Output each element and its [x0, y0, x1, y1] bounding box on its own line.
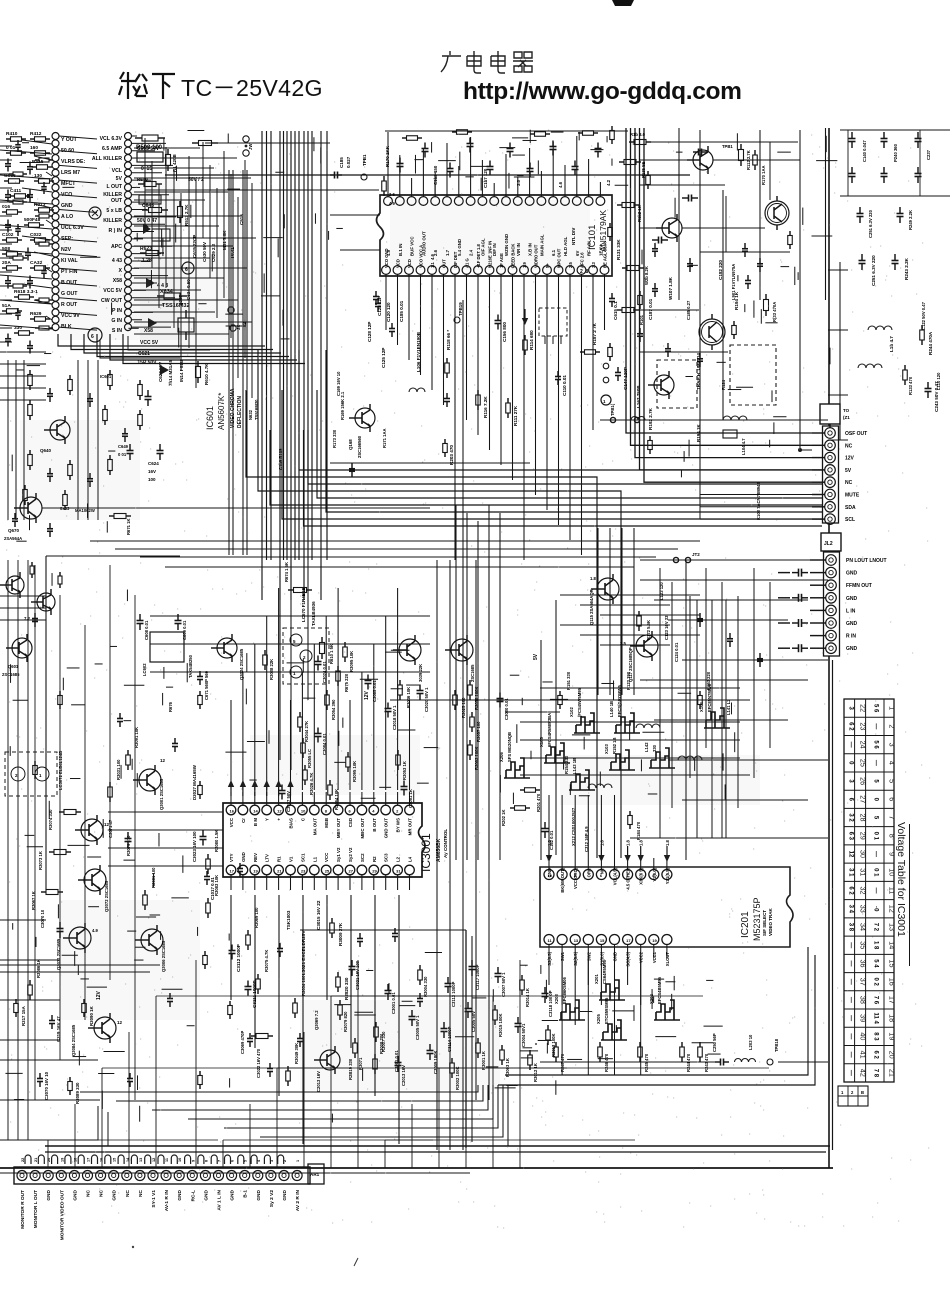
svg-text:L140 1B: L140 1B [609, 701, 614, 717]
svg-text:—: — [848, 1033, 854, 1039]
svg-text:C3021 16V 100: C3021 16V 100 [355, 960, 360, 990]
svg-text:19: 19 [253, 869, 258, 874]
svg-text:SCL: SCL [845, 517, 855, 523]
svg-text:P240 360: P240 360 [893, 143, 898, 162]
svg-text:B: B [861, 1090, 864, 1095]
svg-text:0 1: 0 1 [873, 832, 879, 841]
svg-text:R676: R676 [168, 701, 173, 712]
svg-text:X205: X205 [596, 1014, 601, 1024]
svg-text:C515: C515 [239, 214, 244, 225]
svg-text:MONITOR R OUT: MONITOR R OUT [20, 1190, 26, 1229]
svg-text:TC－25V42G: TC－25V42G [181, 75, 323, 101]
svg-text:R244 470A: R244 470A [928, 331, 933, 355]
svg-text:R3057 100: R3057 100 [476, 721, 481, 742]
svg-text:NC: NC [138, 1189, 144, 1196]
svg-text:2: 2 [888, 724, 897, 728]
svg-text:R3063 100K: R3063 100K [474, 746, 479, 770]
svg-text:23: 23 [301, 869, 306, 874]
svg-text:R203 470: R203 470 [449, 445, 454, 465]
svg-text:VOL(4.5): VOL(4.5) [613, 867, 618, 885]
svg-text:C3069 470P: C3069 470P [240, 1031, 245, 1054]
svg-text:R201 470: R201 470 [536, 793, 541, 812]
svg-text:5V: 5V [533, 653, 539, 660]
svg-text:Y1(6.0): Y1(6.0) [652, 867, 657, 881]
svg-text:R244 470: R244 470 [686, 1053, 691, 1072]
svg-text:R249 2.2K: R249 2.2K [908, 210, 913, 230]
svg-text:C3030 0.01: C3030 0.01 [504, 698, 509, 720]
svg-text:L142: L142 [644, 742, 649, 752]
svg-text:28: 28 [859, 814, 868, 822]
svg-text:3 1: 3 1 [848, 868, 854, 877]
svg-text:33: 33 [859, 905, 868, 913]
svg-text:GND: GND [46, 1189, 52, 1200]
svg-text:8: 8 [204, 1160, 208, 1162]
svg-text:X201: X201 [594, 974, 599, 984]
svg-text:15: 15 [888, 959, 897, 967]
svg-text:3 2: 3 2 [848, 813, 854, 822]
svg-text:SY-1 V1: SY-1 V1 [151, 1190, 157, 1208]
svg-text:L IN: L IN [846, 608, 856, 614]
svg-text:SC3: SC3 [384, 853, 389, 862]
svg-text:Sy 2 V2: Sy 2 V2 [269, 1190, 275, 1207]
svg-text:8 3: 8 3 [873, 1032, 879, 1041]
svg-text:CS64R5M95: CS64R5M95 [602, 959, 607, 984]
svg-text:R410: R410 [6, 131, 18, 137]
svg-text:C3015 16V 22: C3015 16V 22 [316, 900, 321, 930]
svg-text:C182 220: C182 220 [718, 260, 723, 280]
svg-text:C3020 50V 1: C3020 50V 1 [424, 687, 429, 712]
svg-text:GND: GND [846, 571, 858, 577]
svg-text:SDA: SDA [845, 505, 856, 511]
svg-text:R184 470: R184 470 [636, 821, 641, 840]
svg-text:NC: NC [845, 480, 853, 486]
svg-text:R629: R629 [30, 311, 42, 317]
svg-text:19: 19 [60, 1158, 64, 1162]
svg-text:ETC859SM95: ETC859SM95 [604, 997, 609, 1024]
svg-text:C185: C185 [339, 157, 344, 168]
svg-text:6 2: 6 2 [873, 1050, 879, 1059]
svg-text:X103: X103 [604, 744, 609, 754]
svg-text:Q3024 2SC1685: Q3024 2SC1685 [239, 648, 244, 680]
svg-text:K103 7ACN78M943: K103 7ACN78M943 [756, 482, 761, 520]
svg-text:MONITOR L OUT: MONITOR L OUT [33, 1190, 39, 1228]
svg-text:R245 470: R245 470 [644, 1053, 649, 1072]
svg-text:C162 0.01: C162 0.01 [549, 830, 554, 850]
svg-text:X105: X105 [539, 737, 544, 747]
svg-text:C251 6.3V 220: C251 6.3V 220 [868, 209, 873, 238]
svg-text:EFCS4B5M95: EFCS4B5M95 [657, 976, 662, 1004]
svg-text:16V: 16V [148, 469, 156, 474]
svg-text:C3018 50V 1: C3018 50V 1 [392, 705, 397, 730]
svg-text:R133 470: R133 470 [908, 376, 913, 395]
svg-text:C251 6.3V 220: C251 6.3V 220 [871, 255, 876, 286]
svg-text:27: 27 [859, 795, 868, 803]
svg-text:LTV: LTV [265, 854, 270, 862]
svg-text:CSD: CSD [348, 818, 353, 827]
svg-text:5 4: 5 4 [873, 959, 879, 968]
svg-text:38: 38 [859, 996, 868, 1004]
svg-text:TPB1: TPB1 [362, 154, 367, 166]
svg-text:MSB: MSB [324, 818, 329, 828]
svg-text:LRS M7: LRS M7 [61, 170, 80, 176]
svg-text:21: 21 [888, 1069, 897, 1077]
svg-text:MUTE: MUTE [845, 493, 860, 499]
svg-text:R3025 100: R3025 100 [461, 697, 466, 718]
svg-text:BK(6M OUT): BK(6M OUT) [560, 867, 565, 892]
svg-text:IC201: IC201 [740, 911, 751, 938]
svg-text:Ay CONTROL: Ay CONTROL [443, 829, 448, 858]
svg-text:X3K(6 5): X3K(6 5) [639, 867, 644, 884]
svg-text:R194 1K: R194 1K [734, 291, 739, 310]
svg-text:1 8: 1 8 [873, 941, 879, 950]
svg-text:R131 33K: R131 33K [616, 239, 621, 260]
svg-text:12V: 12V [845, 456, 855, 462]
svg-text:3 4: 3 4 [848, 905, 854, 914]
svg-text:VCC(ORC): VCC(ORC) [573, 867, 578, 889]
svg-text:3: 3 [270, 1160, 274, 1162]
svg-text:C1b9 R109: C1b9 R109 [278, 448, 283, 470]
svg-text:R610 1 5K: R610 1 5K [329, 644, 334, 664]
svg-text:R243 470: R243 470 [704, 1053, 709, 1072]
svg-text:SC1: SC1 [300, 853, 305, 862]
svg-text:—: — [848, 942, 854, 948]
svg-text:27: 27 [349, 869, 354, 874]
svg-text:X102: X102 [569, 707, 574, 717]
svg-text:22: 22 [21, 1158, 25, 1162]
svg-text:3039 22K: 3039 22K [418, 664, 423, 682]
svg-text:REV: REV [253, 853, 258, 862]
svg-text:016: 016 [2, 204, 10, 210]
svg-text:C3023 16V 100: C3023 16V 100 [192, 831, 197, 862]
svg-text:GND: GND [72, 1189, 78, 1200]
svg-text:12: 12 [160, 758, 166, 763]
svg-text:W2b 8.2K: W2b 8.2K [644, 266, 649, 285]
svg-text:2SC1685: 2SC1685 [2, 672, 20, 677]
svg-text:330: 330 [652, 744, 657, 752]
svg-text:R3012 1K: R3012 1K [533, 1063, 538, 1082]
svg-text:1.8: 1.8 [626, 840, 631, 846]
svg-text:C3117 1000P: C3117 1000P [475, 964, 480, 990]
svg-text:C3112 1000P: C3112 1000P [236, 944, 241, 972]
svg-text:10: 10 [178, 1158, 182, 1162]
svg-text:C120 120: C120 120 [386, 302, 391, 322]
svg-text:DEFLECTION: DEFLECTION [237, 396, 243, 428]
svg-text:C3111 1000P: C3111 1000P [252, 980, 257, 1008]
svg-text:41: 41 [859, 1051, 868, 1059]
svg-text:VCC: VCC [229, 817, 234, 827]
svg-text:34: 34 [859, 923, 868, 931]
svg-text:6.5 AMP: 6.5 AMP [102, 146, 123, 152]
svg-text:MBC OUT: MBC OUT [360, 818, 365, 839]
svg-text:Sy1 V2: Sy1 V2 [336, 847, 341, 862]
svg-text:37: 37 [859, 978, 868, 986]
svg-text:2SA564A: 2SA564A [4, 536, 22, 541]
svg-text:5V: 5V [845, 468, 852, 474]
svg-text:LC3072 ELB4L124B: LC3072 ELB4L124B [58, 751, 63, 790]
svg-text:XLOUT: XLOUT [665, 952, 670, 967]
svg-text:C102: C102 [2, 232, 14, 238]
svg-text:D3037 MA4165W: D3037 MA4165W [192, 764, 197, 800]
svg-text:TSK1003: TSK1003 [286, 910, 291, 930]
svg-text:2SC166560: 2SC166560 [357, 435, 362, 458]
svg-text:GND: GND [846, 621, 858, 627]
svg-text:L203 10: L203 10 [748, 1034, 753, 1050]
svg-text:(Z1: (Z1 [843, 415, 850, 420]
svg-text:40: 40 [859, 1032, 868, 1040]
svg-text:14: 14 [253, 809, 258, 814]
svg-text:0 15: 0 15 [141, 166, 152, 172]
svg-text:C3085 0.01: C3085 0.01 [372, 680, 377, 702]
svg-text:C237: C237 [926, 149, 931, 160]
svg-text:AN5607K*: AN5607K* [217, 393, 226, 430]
svg-text:W107 1.8K: W107 1.8K [668, 276, 673, 300]
svg-text:1: 1 [888, 706, 897, 710]
svg-text:R1: R1 [277, 856, 282, 862]
svg-text:GND: GND [282, 1189, 288, 1200]
svg-text:16: 16 [888, 978, 897, 986]
svg-text:C128 12P: C128 12P [367, 322, 372, 342]
svg-text:3 8: 3 8 [848, 923, 854, 932]
svg-text:C3070 16V 10: C3070 16V 10 [44, 1071, 49, 1100]
svg-text:IC601: IC601 [100, 374, 112, 379]
svg-text:4.5 OTHER: 4.5 OTHER [626, 868, 631, 890]
svg-text:C3118 100 0P: C3118 100 0P [548, 990, 553, 1017]
svg-text:VCL 6.3V: VCL 6.3V [100, 136, 123, 142]
svg-text:R412: R412 [30, 131, 42, 137]
svg-text:C1b7 120: C1b7 120 [483, 168, 488, 188]
svg-text:19: 19 [888, 1032, 897, 1040]
svg-text:17: 17 [888, 996, 897, 1004]
svg-text:L1b 4.7: L1b 4.7 [889, 336, 894, 352]
svg-text:6FCS4R5MW3BA: 6FCS4R5MW3BA [547, 713, 552, 747]
svg-text:13: 13 [574, 938, 579, 943]
svg-text:TPB18: TPB18 [774, 1038, 779, 1052]
svg-text:29: 29 [372, 869, 377, 874]
svg-text:C125 12P: C125 12P [381, 348, 386, 368]
svg-text:V1: V1 [289, 856, 294, 862]
svg-text:TAK54B250: TAK54B250 [188, 654, 193, 678]
svg-text:—: — [848, 1015, 854, 1021]
svg-text:L1: L1 [312, 856, 317, 862]
svg-text:C3022 16V 470: C3022 16V 470 [256, 1048, 261, 1078]
svg-text:http://www.go-gddq.com: http://www.go-gddq.com [463, 78, 742, 105]
svg-text:C671 560P 560: C671 560P 560 [204, 670, 209, 700]
svg-text:R246 470: R246 470 [604, 1053, 609, 1072]
svg-text:VCL: VCL [112, 168, 123, 174]
svg-text:23: 23 [859, 722, 868, 730]
svg-text:R3049 30K: R3049 30K [294, 1043, 299, 1064]
svg-text:R675 220: R675 220 [344, 673, 349, 692]
svg-text:GND: GND [203, 1189, 209, 1200]
svg-text:AV-1 R IN: AV-1 R IN [164, 1189, 170, 1211]
svg-text:L2: L2 [396, 856, 401, 862]
svg-text:25: 25 [325, 869, 330, 874]
svg-text:R(33 470A: R(33 470A [772, 302, 777, 322]
svg-text:Q3084 2SC1685: Q3084 2SC1685 [71, 1024, 76, 1056]
svg-text:17: 17 [87, 1158, 91, 1162]
svg-text:B M: B M [253, 818, 258, 826]
svg-text:R3004 330: R3004 330 [423, 976, 428, 997]
svg-text:12: 12 [117, 1020, 123, 1025]
svg-text:C124 0.01: C124 0.01 [674, 642, 679, 662]
svg-text:L167 750P: L167 750P [636, 386, 641, 408]
svg-text:7: 7 [218, 1160, 222, 1162]
svg-text:20: 20 [888, 1051, 897, 1059]
svg-text:C3071 47: C3071 47 [108, 819, 113, 838]
svg-text:R3086 1K: R3086 1K [36, 959, 41, 978]
svg-text:R172 5.6K: R172 5.6K [646, 620, 651, 640]
svg-text:7.2: 7.2 [24, 616, 31, 621]
svg-text:5: 5 [244, 1160, 248, 1162]
svg-text:GND: GND [256, 1189, 262, 1200]
svg-text:21: 21 [34, 1158, 38, 1162]
svg-text:C243 50V 0.47: C243 50V 0.47 [934, 381, 939, 412]
svg-text:R170 1KK: R170 1KK [385, 145, 390, 167]
svg-text:C169 16V 10: C169 16V 10 [336, 371, 341, 396]
svg-text:R3056 100K: R3056 100K [474, 686, 479, 710]
svg-text:Q601: Q601 [8, 664, 19, 669]
svg-text:1.8: 1.8 [665, 840, 670, 846]
svg-text:VTY: VTY [229, 853, 234, 862]
svg-text:JL2: JL2 [824, 541, 833, 547]
svg-text:5 6: 5 6 [873, 704, 879, 713]
svg-text:JT2: JT2 [692, 552, 700, 557]
svg-text:Q168: Q168 [348, 439, 353, 450]
svg-text:L4: L4 [408, 856, 413, 862]
svg-text:10: 10 [301, 809, 306, 814]
svg-text:21: 21 [277, 869, 282, 874]
svg-text:5 6: 5 6 [873, 740, 879, 749]
svg-text:11 4: 11 4 [873, 1012, 879, 1024]
svg-text:Sy2 V2: Sy2 V2 [348, 847, 353, 862]
svg-text:RC-L: RC-L [190, 1190, 196, 1202]
svg-text:R101: R101 [639, 314, 644, 325]
svg-text:Voltage Table for IC3001: Voltage Table for IC3001 [895, 822, 907, 937]
svg-text:SC2: SC2 [360, 853, 365, 862]
svg-text:—: — [873, 760, 879, 766]
svg-text:—: — [873, 851, 879, 857]
svg-text:AV 2 R IN: AV 2 R IN [295, 1189, 301, 1211]
svg-text:Q3001 2SC1685: Q3001 2SC1685 [159, 778, 164, 810]
svg-text:SIF SELECT: SIF SELECT [762, 910, 767, 936]
svg-text:C156 800: C156 800 [502, 322, 507, 342]
svg-text:25: 25 [859, 759, 868, 767]
svg-text:FFMN OUT: FFMN OUT [846, 583, 872, 589]
svg-text:6 3: 6 3 [848, 832, 854, 841]
svg-text:L3021 EXCELDR25V: L3021 EXCELDR25V [301, 930, 306, 975]
svg-text:C3004 50V1: C3004 50V1 [521, 1023, 526, 1047]
svg-text:R618 3.3-1: R618 3.3-1 [14, 289, 38, 295]
svg-text:3.0: 3.0 [516, 179, 521, 186]
svg-text:R118 66 *: R118 66 * [446, 330, 451, 350]
svg-text:R3031 100: R3031 100 [116, 759, 121, 780]
svg-text:R674 1 5K: R674 1 5K [284, 562, 289, 582]
svg-text:3.3: 3.3 [591, 262, 596, 268]
svg-text:24: 24 [859, 741, 868, 749]
svg-text:12V: 12V [364, 690, 370, 700]
svg-text:6 2: 6 2 [848, 886, 854, 895]
svg-text:C608 0.01: C608 0.01 [144, 620, 149, 640]
svg-text:160: 160 [30, 145, 38, 151]
svg-text:15: 15 [600, 938, 605, 943]
svg-text:R2080 1.5K: R2080 1.5K [214, 830, 219, 852]
svg-text:GND: GND [241, 852, 246, 862]
svg-text:—: — [873, 888, 879, 894]
svg-text:YZ1(5.5): YZ1(5.5) [665, 867, 670, 884]
svg-text:R114 680: R114 680 [529, 330, 534, 350]
svg-text:ALL KILLER: ALL KILLER [92, 156, 122, 162]
svg-text:R3009 27K: R3009 27K [338, 922, 343, 946]
svg-text:L104 4.7: L104 4.7 [741, 438, 746, 455]
svg-text:18: 18 [888, 1014, 897, 1022]
svg-text:C185 0.27: C185 0.27 [686, 300, 691, 320]
svg-text:TAXLB4936: TAXLB4936 [311, 601, 316, 626]
svg-text:Q115 2SA564AQR: Q115 2SA564AQR [589, 589, 594, 625]
svg-text:AV 1 L IN: AV 1 L IN [217, 1189, 223, 1210]
svg-text:AR1: AR1 [310, 1172, 320, 1177]
svg-text:7 6: 7 6 [873, 996, 879, 1005]
svg-text:R1b 3.0: R1b 3.0 [630, 132, 646, 137]
svg-text:LC670 F1R4B1B: LC670 F1R4B1B [301, 586, 306, 622]
svg-text:R3095 10K: R3095 10K [349, 651, 354, 672]
svg-text:R1b2 1K: R1b2 1K [637, 205, 642, 222]
svg-text:R3089 330: R3089 330 [75, 1082, 80, 1104]
svg-text:VLRS DE:: VLRS DE: [61, 159, 85, 165]
svg-text:R2: R2 [372, 856, 377, 862]
svg-text:6: 6 [231, 1160, 235, 1162]
svg-text:M523175P: M523175P [752, 897, 762, 941]
svg-text:17: 17 [230, 869, 235, 874]
svg-text:14: 14 [888, 941, 897, 949]
svg-text:2.5: 2.5 [620, 641, 626, 646]
svg-text:B-1: B-1 [243, 1190, 249, 1198]
svg-text:NC: NC [845, 443, 853, 449]
svg-text:NC: NC [99, 1189, 105, 1196]
svg-text:L141 L2: L141 L2 [726, 699, 731, 715]
svg-text:X203: X203 [554, 994, 559, 1004]
svg-text:GND OUT: GND OUT [384, 818, 389, 839]
svg-text:X206: X206 [499, 752, 504, 762]
svg-text:·0: ·0 [873, 906, 879, 912]
svg-text:VCC1: VCC1 [652, 951, 657, 963]
svg-text:R151 330: R151 330 [566, 671, 571, 690]
svg-text:R3074 330: R3074 330 [48, 809, 53, 830]
svg-text:GND: GND [112, 1189, 118, 1200]
svg-text:+: + [277, 818, 282, 821]
svg-text:—: — [848, 1070, 854, 1076]
svg-text:GND: GND [846, 596, 858, 602]
svg-text:TO: TO [843, 408, 850, 413]
svg-text:R513 2.7K: R513 2.7K [184, 204, 189, 226]
svg-text:1.8: 1.8 [590, 576, 596, 581]
svg-text:BY WS: BY WS [396, 818, 401, 832]
svg-text:PN LOUT LNOUT: PN LOUT LNOUT [846, 558, 887, 564]
svg-text:100: 100 [148, 477, 156, 482]
svg-text:2 6: 2 6 [389, 192, 395, 197]
svg-text:VCC: VCC [324, 852, 329, 862]
svg-text:R192 2.7K: R192 2.7K [648, 407, 653, 430]
svg-text:15: 15 [113, 1158, 117, 1162]
svg-text:R3013 100K: R3013 100K [551, 1033, 556, 1057]
svg-text:0 1: 0 1 [873, 868, 879, 877]
svg-text:—: — [873, 723, 879, 729]
svg-text:3: 3 [888, 743, 897, 747]
svg-text:R3073 1K: R3073 1K [38, 851, 43, 870]
svg-text:R3083 10K: R3083 10K [214, 875, 219, 896]
svg-text:BIAS: BIAS [289, 818, 294, 829]
svg-text:4: 4 [888, 761, 897, 765]
svg-text:IC3001: IC3001 [419, 833, 433, 872]
